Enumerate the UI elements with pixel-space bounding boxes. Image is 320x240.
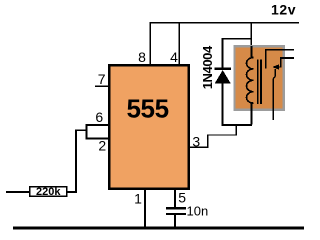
diode D1 cathode bar bbox=[215, 68, 231, 70]
wire rail to relay coil bbox=[250, 22, 252, 62]
svg-text:12v: 12v bbox=[271, 1, 296, 17]
relay lever wire bbox=[273, 69, 275, 120]
svg-text:1: 1 bbox=[134, 190, 142, 206]
pin 5 wire upper bbox=[174, 189, 176, 207]
wire down to resistor bbox=[75, 129, 77, 192]
pin 6 wire bbox=[86, 124, 108, 126]
relay contact terminal 2 bbox=[280, 57, 294, 59]
pin 7 stub bbox=[95, 85, 108, 87]
relay core lines bbox=[257, 60, 259, 105]
wire bracket to left bbox=[75, 129, 88, 131]
diode D1 lead top bbox=[222, 38, 224, 69]
svg-text:10n: 10n bbox=[187, 203, 209, 218]
capacitor C1 bottom plate bbox=[166, 213, 186, 215]
relay coil bbox=[250, 46, 252, 125]
svg-text:2: 2 bbox=[98, 138, 106, 154]
svg-text:220k: 220k bbox=[36, 186, 61, 198]
capacitor C1 top plate bbox=[166, 207, 186, 209]
wire junction diode/coil/pin3 bbox=[222, 124, 253, 126]
relay contact terminal 1 bbox=[265, 49, 294, 51]
wire bracket joining pin6 and pin2 bbox=[86, 124, 88, 139]
diode D1 lead bottom bbox=[222, 82, 224, 126]
svg-text:555: 555 bbox=[127, 94, 169, 124]
relay contact 2 drop bbox=[280, 57, 281, 67]
wire pin4 to rail bbox=[178, 22, 180, 64]
svg-text:7: 7 bbox=[98, 71, 106, 87]
pin 2 wire bbox=[86, 138, 108, 140]
svg-text:5: 5 bbox=[178, 190, 186, 206]
svg-text:1N4004: 1N4004 bbox=[200, 45, 215, 89]
svg-text:8: 8 bbox=[138, 49, 146, 65]
svg-text:4: 4 bbox=[170, 49, 178, 65]
ground rail bbox=[13, 227, 304, 230]
resistor R1 220k body bbox=[30, 187, 67, 196]
wire cap to ground bbox=[174, 215, 176, 228]
relay contact 1 drop bbox=[265, 49, 266, 69]
relay K1 body bbox=[234, 46, 283, 109]
wire resistor right lead bbox=[67, 191, 77, 193]
diode D1 triangle bbox=[215, 70, 231, 83]
wire pin3 stepped to relay circuit bbox=[189, 125, 236, 147]
svg-text:6: 6 bbox=[95, 109, 103, 125]
relay lever arrow bbox=[272, 64, 279, 69]
12v supply rail bbox=[149, 22, 299, 24]
wire pin8 to rail bbox=[149, 22, 151, 64]
pin 1 wire bbox=[144, 189, 146, 229]
op-amp/timer IC U1 555 body bbox=[109, 65, 189, 189]
wire resistor left lead bbox=[6, 191, 30, 193]
wire diode top to relay vertical bbox=[222, 38, 253, 40]
